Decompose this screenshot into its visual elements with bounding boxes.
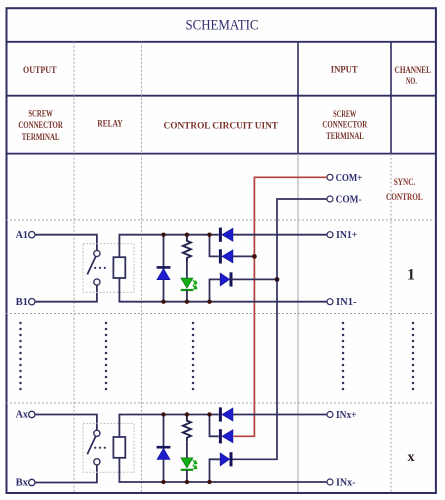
row border dashed above channel x	[6, 402, 436, 404]
svg-text:NO.: NO.	[406, 76, 417, 86]
svg-text:B1: B1	[16, 297, 28, 308]
column border 1 (dashed)	[73, 42, 75, 492]
COM+ terminal	[327, 174, 333, 180]
relay contact bottom	[94, 279, 100, 285]
relay Kx dashed box	[83, 423, 134, 472]
svg-text:SYNC.: SYNC.	[394, 177, 416, 187]
INx+ terminal	[327, 412, 333, 418]
svg-text:SCREW: SCREW	[333, 109, 356, 119]
IN1+ terminal	[327, 232, 333, 238]
top rail right of D1x	[233, 414, 327, 416]
relay dots	[94, 267, 96, 269]
coil bottom wire / bottom rail	[119, 278, 326, 302]
diode D5x to COM-	[220, 453, 229, 466]
COM- navy wire	[233, 199, 327, 459]
svg-text:1: 1	[407, 267, 415, 284]
Ax wire to switch	[35, 415, 97, 431]
wire resistor to LED	[186, 441, 188, 458]
diode D4x to COM+	[219, 429, 222, 443]
svg-text:TERMINAL: TERMINAL	[22, 132, 60, 142]
svg-text:Bx: Bx	[16, 478, 28, 489]
column border 2 (dashed)	[141, 42, 143, 492]
Bx wire to switch	[35, 465, 97, 483]
A1 wire to switch	[35, 235, 97, 251]
wire LED to bottom rail	[186, 290, 188, 302]
row border dashed above channel 1	[6, 219, 436, 221]
svg-text:INx+: INx+	[336, 410, 357, 421]
column border 3 lower (thin gray)	[297, 154, 299, 492]
svg-text:COM-: COM-	[336, 195, 362, 206]
relay coil Kx	[113, 437, 125, 458]
svg-text:Ax: Ax	[16, 410, 28, 421]
svg-text:CONTROL CIRCUIT UINT: CONTROL CIRCUIT UINT	[164, 120, 279, 130]
relay K1 dashed box	[83, 244, 134, 293]
top rail right of D1	[233, 234, 327, 236]
svg-text:INx-: INx-	[336, 478, 356, 489]
COM+ red wire	[234, 177, 327, 436]
svg-text:CONNECTOR: CONNECTOR	[18, 120, 63, 130]
wire resistor to LED	[186, 262, 188, 279]
junction dots channel 1	[161, 233, 165, 237]
relay contact top	[94, 250, 100, 256]
branch to D4x	[210, 415, 219, 437]
COM- terminal	[327, 196, 333, 202]
coil top wire	[119, 235, 218, 258]
diode D3 series on IN1+ rail	[219, 228, 222, 242]
svg-text:TERMINAL: TERMINAL	[326, 131, 364, 141]
relay dots	[94, 447, 96, 449]
diode D4 to COM+	[219, 249, 222, 263]
branch to D5x	[210, 459, 221, 482]
junction dots channel x	[161, 412, 165, 416]
branch to D5	[210, 279, 221, 301]
relay blade	[87, 257, 95, 275]
relay blade	[87, 437, 95, 455]
LED D2x green	[181, 458, 193, 468]
relay contact top	[94, 430, 100, 436]
flyback diode D1	[163, 235, 165, 302]
svg-text:CONNECTOR: CONNECTOR	[322, 120, 367, 130]
flyback diode D1x	[163, 415, 165, 483]
relay contact bottom	[94, 459, 100, 465]
IN1- terminal	[327, 299, 333, 305]
diode D3x series on INx+ rail	[219, 407, 222, 421]
column border 3 header (solid navy)	[297, 42, 299, 154]
coil bottom wire / bottom rail	[119, 458, 326, 482]
wire LED to bottom rail	[186, 470, 188, 482]
column border 4 header (solid navy)	[390, 42, 392, 154]
svg-text:IN1+: IN1+	[336, 230, 358, 241]
title row bottom line	[6, 41, 436, 43]
row border dashed below channel 1	[6, 313, 436, 315]
INx- terminal	[327, 479, 333, 485]
B1 wire to switch	[35, 285, 97, 302]
svg-text:A1: A1	[16, 230, 28, 241]
resistor R1	[183, 235, 191, 262]
svg-text:IN1-: IN1-	[336, 297, 357, 308]
svg-text:SCREW: SCREW	[28, 109, 53, 119]
column border 4 lower (dashed)	[390, 154, 392, 492]
LED D2 green	[181, 278, 193, 288]
svg-text:x: x	[408, 450, 415, 465]
header row2 bottom line	[6, 153, 436, 155]
svg-text:INPUT: INPUT	[331, 65, 358, 75]
svg-text:CONTROL: CONTROL	[386, 192, 423, 202]
diode D5 to COM-	[220, 273, 229, 286]
svg-text:COM+: COM+	[336, 173, 363, 184]
branch to D4	[210, 235, 219, 257]
header row1 bottom line	[6, 95, 436, 97]
svg-text:SCHEMATIC: SCHEMATIC	[186, 17, 259, 33]
svg-text:CHANNEL: CHANNEL	[395, 65, 432, 75]
relay coil K1	[113, 257, 125, 278]
svg-text:OUTPUT: OUTPUT	[23, 65, 57, 75]
resistor Rx	[183, 415, 191, 442]
svg-text:RELAY: RELAY	[97, 119, 123, 129]
coil top wire	[119, 415, 218, 438]
